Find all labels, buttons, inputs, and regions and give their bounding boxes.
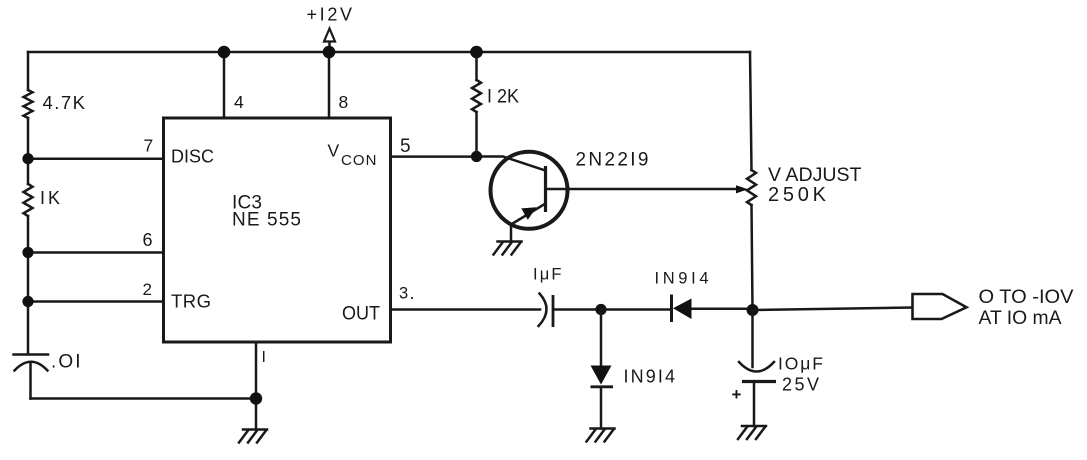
wire right vertical from rail: [750, 52, 752, 170]
svg-text:3: 3: [399, 284, 408, 302]
wire junction to D1: [601, 308, 671, 311]
wire pin 4: [223, 52, 226, 118]
wire Q1 collector to pot wiper: [569, 188, 737, 191]
wire pin 2 TRG: [28, 300, 164, 303]
transistor Q1 2N2219: [491, 152, 570, 242]
wire pot to output node: [752, 205, 753, 310]
svg-text:NE 555: NE 555: [232, 210, 301, 231]
wire junction to output connector: [753, 308, 913, 311]
svg-text:AT IO mA: AT IO mA: [979, 307, 1062, 329]
resistor R1 4.7K: [24, 90, 33, 118]
svg-text:4: 4: [234, 92, 244, 112]
resistor R3 1.2K: [472, 52, 481, 157]
svg-text:OUT: OUT: [342, 304, 380, 325]
wire pin 5 VCON lead: [391, 157, 546, 171]
capacitor C1 .01: [14, 355, 49, 399]
svg-text:+: +: [732, 385, 742, 404]
potentiometer VR1 250K: [747, 170, 756, 205]
svg-text:V ADJUST: V ADJUST: [768, 165, 862, 186]
svg-text:V: V: [328, 140, 340, 160]
svg-text:IN9I4: IN9I4: [624, 367, 676, 387]
+12V supply symbol: [324, 29, 335, 53]
svg-text:6: 6: [143, 230, 153, 250]
diode D1 1N914 (horizontal): [672, 295, 753, 323]
node output junction: [747, 304, 759, 316]
wire pin 6: [28, 251, 164, 254]
svg-text:250K: 250K: [768, 184, 827, 206]
IC U1 NE555 body: [164, 118, 391, 342]
ground under Q1: [494, 242, 522, 255]
wire left vertical bus: [27, 52, 30, 353]
svg-text:IμF: IμF: [533, 266, 562, 284]
svg-text:4.7K: 4.7K: [43, 92, 86, 113]
ground under pin 1: [239, 430, 267, 443]
svg-text:IK: IK: [40, 188, 60, 208]
svg-text:2: 2: [143, 280, 152, 299]
node pin7/R1/R2 junction: [22, 153, 33, 164]
svg-text:CON: CON: [341, 152, 377, 169]
svg-text:I 2K: I 2K: [487, 87, 519, 108]
node pin6 junction: [22, 247, 33, 258]
svg-text:5: 5: [400, 136, 411, 157]
svg-text:DISC: DISC: [171, 146, 214, 167]
wire pin 7 DISC: [28, 157, 164, 160]
diode D2 1N914 (vertical): [591, 310, 614, 429]
ground under D2: [587, 429, 615, 442]
node R3 top junction: [470, 46, 483, 59]
svg-text:8: 8: [339, 92, 349, 112]
resistor R2 1K: [24, 184, 33, 216]
capacitor C3 10uF: [739, 310, 776, 426]
svg-text:I: I: [262, 349, 266, 366]
svg-text:IN9I4: IN9I4: [655, 269, 709, 287]
node pin4 rail junction: [218, 46, 231, 59]
svg-text:+I2V: +I2V: [307, 5, 353, 25]
wire pin 3 OUT lead: [391, 308, 540, 311]
node R3 bottom junction: [471, 151, 482, 162]
ground under C3: [738, 426, 766, 439]
svg-text:TRG: TRG: [171, 291, 211, 312]
svg-text:.OI: .OI: [51, 352, 81, 373]
node C2/D1/D2 junction: [595, 304, 606, 315]
wire pin 8: [328, 52, 331, 118]
output connector: [913, 294, 967, 319]
wiper arrowhead: [736, 185, 748, 193]
node pin1/return junction: [250, 392, 262, 404]
svg-text:IOμF: IOμF: [778, 353, 823, 373]
svg-text:25V: 25V: [782, 375, 819, 395]
wire pin 1: [255, 342, 258, 430]
svg-text:7: 7: [144, 136, 154, 156]
wire +12V top rail: [28, 51, 750, 54]
svg-text:.: .: [410, 283, 415, 303]
node pin8 rail junction: [323, 46, 336, 59]
node pin2 junction: [22, 296, 33, 307]
svg-text:O TO -IOV: O TO -IOV: [979, 286, 1074, 308]
capacitor C2 1uF: [539, 294, 601, 328]
wire bottom return: [31, 397, 257, 400]
